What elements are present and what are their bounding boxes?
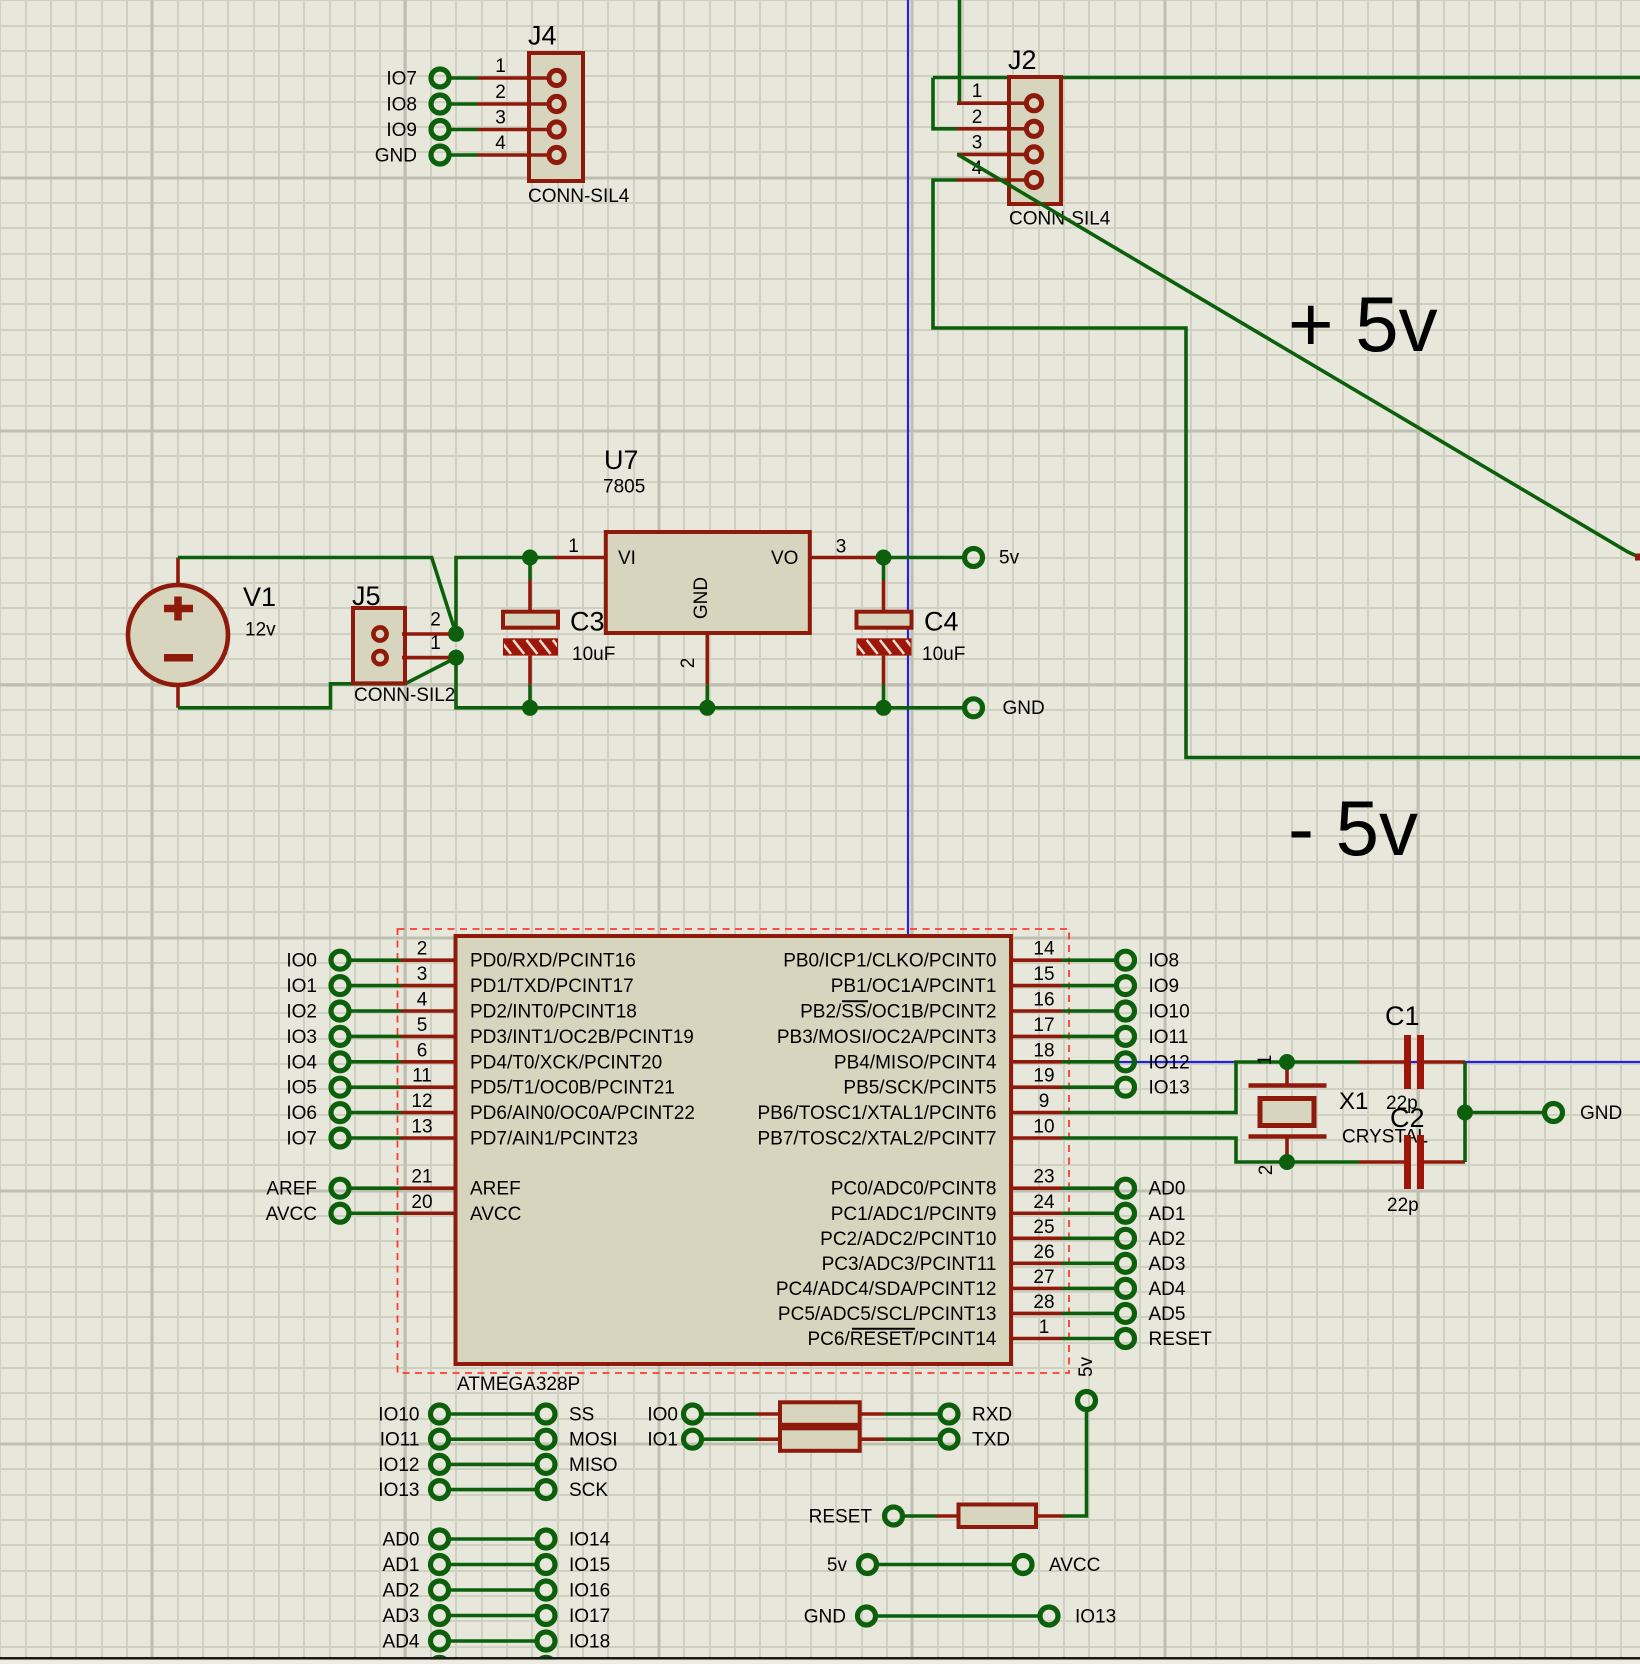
svg-text:C4: C4 (924, 607, 959, 637)
sheet border blue horizontal (908, 1061, 1640, 1063)
wire IO4 (350, 1060, 401, 1064)
svg-text:AD5: AD5 (1149, 1304, 1186, 1325)
C1 plates (1404, 1035, 1411, 1089)
junction GND pin2 (699, 700, 715, 716)
terminal IO3 (331, 1027, 349, 1045)
terminal AD1 (1117, 1204, 1135, 1222)
svg-text:24: 24 (1033, 1192, 1055, 1213)
wire C3 bottom (528, 685, 532, 708)
svg-text:IO11: IO11 (1149, 1027, 1189, 1048)
svg-text:IO13: IO13 (1075, 1607, 1116, 1628)
C2 plates (1404, 1135, 1411, 1189)
svg-text:22p: 22p (1387, 1195, 1419, 1216)
wire node to U7 VI (456, 558, 554, 634)
svg-text:- 5v: - 5v (1288, 784, 1418, 872)
svg-text:3: 3 (417, 964, 428, 985)
wire C4 top (882, 558, 886, 581)
wire RESET (903, 1514, 936, 1518)
svg-text:IO16: IO16 (569, 1581, 610, 1602)
J2 pin3 ring (1026, 147, 1041, 162)
pair AD2-IO16 (383, 1581, 611, 1602)
MCU U? ATMEGA328P (266, 929, 1213, 1395)
wire C4 bottom (882, 685, 886, 708)
junction GND node (1457, 1105, 1473, 1121)
svg-text:PD1/TXD/PCINT17: PD1/TXD/PCINT17 (470, 976, 634, 997)
svg-text:AD3: AD3 (383, 1606, 420, 1627)
terminal IO8 (1117, 951, 1135, 969)
pin stub J4 pin2 (478, 102, 553, 106)
svg-text:4: 4 (495, 133, 506, 154)
terminal RESET (1117, 1330, 1135, 1348)
C1 left lead (1359, 1060, 1405, 1064)
resistor RESET pullup (809, 1356, 1097, 1527)
pin stub J5 pin2 (402, 632, 449, 636)
pair AD0-IO14 (383, 1530, 611, 1551)
pin stub 2 (401, 958, 456, 962)
svg-text:SCK: SCK (569, 1480, 608, 1501)
X1 body (1260, 1099, 1314, 1126)
terminal IO6 (331, 1104, 349, 1122)
C1 right lead (1424, 1060, 1465, 1064)
svg-text:PB2/SS/OC1B/PCINT2: PB2/SS/OC1B/PCINT2 (800, 1002, 996, 1023)
svg-text:2: 2 (417, 939, 428, 960)
svg-text:AD2: AD2 (1149, 1229, 1186, 1250)
V1 plus sign (164, 605, 193, 613)
svg-text:PB0/ICP1/CLKO/PCINT0: PB0/ICP1/CLKO/PCINT0 (783, 951, 996, 972)
svg-text:PB7/TOSC2/XTAL2/PCINT7: PB7/TOSC2/XTAL2/PCINT7 (758, 1129, 997, 1150)
junction VO/C4 (876, 550, 892, 566)
J4 pin2 ring (549, 96, 564, 111)
svg-text:1: 1 (972, 81, 983, 102)
junction J5 pin1 (448, 650, 464, 666)
X1 top electrode bar (1249, 1083, 1327, 1088)
terminal IO7 (331, 1129, 349, 1147)
svg-text:IO3: IO3 (286, 1027, 317, 1048)
pair IO10-SS (378, 1405, 594, 1426)
J5 pin1 ring (373, 651, 386, 664)
capacitor C3 10uF (500, 558, 615, 708)
svg-text:MOSI: MOSI (569, 1430, 618, 1451)
svg-text:IO13: IO13 (378, 1480, 419, 1501)
C3 top plate (503, 612, 558, 628)
pair IO13-SCK (378, 1480, 608, 1501)
pin stub J4 pin3 (478, 128, 553, 132)
svg-text:RESET: RESET (1149, 1329, 1213, 1350)
pin stub 4 (401, 1009, 456, 1013)
pin stub 25 (1011, 1237, 1062, 1241)
junction XTAL1/C1 (1279, 1054, 1295, 1070)
pin stub 13 (401, 1136, 456, 1140)
svg-text:J5: J5 (352, 581, 381, 611)
wire IO3 (350, 1035, 401, 1039)
svg-text:C2: C2 (1390, 1103, 1425, 1133)
terminal IO1 (331, 977, 349, 995)
svg-text:IO9: IO9 (1149, 976, 1180, 997)
pin stub 26 (1011, 1262, 1062, 1266)
pin stub 6 (401, 1060, 456, 1064)
crystal circuit (1062, 1001, 1622, 1216)
pin stub 11 (401, 1085, 456, 1089)
terminal IO11 (1117, 1027, 1135, 1045)
capacitor C4 10uF (854, 558, 966, 708)
svg-text:5v: 5v (827, 1555, 848, 1576)
svg-text:PB5/SCK/PCINT5: PB5/SCK/PCINT5 (843, 1078, 996, 1099)
wire J4 pin4 (450, 153, 478, 157)
J4 body CONN-SIL4 (529, 53, 583, 181)
svg-text:PC6/RESET/PCINT14: PC6/RESET/PCINT14 (808, 1329, 997, 1350)
svg-text:25: 25 (1033, 1217, 1054, 1238)
resistor lead (936, 1514, 959, 1518)
svg-text:CONN-SIL4: CONN-SIL4 (528, 186, 630, 207)
terminal IO9 (431, 121, 449, 139)
connector J4 (375, 21, 630, 208)
svg-text:PC2/ADC2/PCINT10: PC2/ADC2/PCINT10 (820, 1229, 996, 1250)
wire IO7 (350, 1136, 401, 1140)
svg-text:IO14: IO14 (569, 1530, 611, 1551)
pin stub 14 (1011, 958, 1062, 962)
svg-text:GND: GND (691, 577, 712, 619)
pin stub 9 (1011, 1111, 1062, 1115)
wire RESET (1062, 1337, 1116, 1341)
wire J2 pin1 from top (958, 0, 962, 103)
svg-text:19: 19 (1033, 1066, 1054, 1087)
wire XTAL2 (1062, 1138, 1359, 1162)
J2 pin2 ring (1026, 121, 1041, 136)
svg-text:IO6: IO6 (286, 1103, 317, 1124)
terminal GND (965, 699, 983, 717)
junction C4/GND (876, 700, 892, 716)
svg-text:PD0/RXD/PCINT16: PD0/RXD/PCINT16 (470, 951, 636, 972)
svg-text:TXD: TXD (972, 1430, 1010, 1451)
svg-text:AD3: AD3 (1149, 1254, 1186, 1275)
pin stub J4 pin4 (478, 153, 553, 157)
terminal RESET (885, 1507, 903, 1525)
pair AD4-IO18 (383, 1632, 611, 1653)
svg-text:AD0: AD0 (1149, 1179, 1186, 1200)
svg-text:U7: U7 (604, 445, 639, 475)
svg-text:AD2: AD2 (383, 1581, 420, 1602)
C4 top plate (857, 612, 912, 628)
svg-text:GND: GND (1003, 698, 1045, 719)
wire diagonal +5v (958, 154, 1640, 557)
svg-text:12v: 12v (245, 620, 276, 641)
regulator U7 7805 (554, 445, 876, 708)
wire GND rail (456, 658, 964, 708)
pair AD3-IO17 (383, 1606, 611, 1627)
U7 body (606, 532, 810, 633)
C4 bottom lead (882, 656, 886, 685)
svg-text:2: 2 (1256, 1165, 1277, 1176)
terminal 5v (965, 549, 983, 567)
wire AD1 (1062, 1211, 1116, 1215)
connector J2 (933, 0, 1640, 758)
svg-text:PD3/INT1/OC2B/PCINT19: PD3/INT1/OC2B/PCINT19 (470, 1027, 694, 1048)
terminal AD3 (1117, 1254, 1135, 1272)
J5 pin2 ring (373, 627, 386, 640)
svg-text:AD1: AD1 (383, 1555, 420, 1576)
svg-text:IO8: IO8 (386, 95, 417, 116)
wire U7 GND (705, 685, 709, 708)
svg-text:IO0: IO0 (286, 951, 317, 972)
terminal GND (431, 146, 449, 164)
svg-text:GND: GND (1580, 1103, 1622, 1124)
svg-text:IO17: IO17 (569, 1606, 610, 1627)
wire J2 pin2 (933, 78, 957, 129)
pin stub U7 GND pin2 (705, 633, 709, 685)
svg-text:C3: C3 (570, 607, 605, 637)
C2 left lead (1359, 1160, 1405, 1164)
svg-text:IO18: IO18 (569, 1632, 610, 1653)
X1 bottom electrode bar (1249, 1134, 1327, 1139)
pin stub 20 (401, 1211, 456, 1215)
svg-text:AD1: AD1 (1149, 1204, 1186, 1225)
pin stub 18 (1011, 1060, 1062, 1064)
svg-text:28: 28 (1033, 1292, 1054, 1313)
C4 top lead (882, 580, 886, 612)
svg-text:6: 6 (417, 1040, 428, 1061)
svg-text:RESET: RESET (809, 1507, 873, 1528)
svg-text:J2: J2 (1008, 45, 1037, 75)
svg-text:AVCC: AVCC (266, 1204, 317, 1225)
pin stub U7 VI pin1 (554, 556, 606, 560)
svg-text:7805: 7805 (603, 477, 645, 498)
terminal IO12 (1117, 1053, 1135, 1071)
wire V1- bottom (178, 658, 456, 708)
svg-text:J4: J4 (528, 21, 557, 51)
svg-text:5v: 5v (1076, 1356, 1097, 1377)
wire AD2 (1062, 1237, 1116, 1241)
pin stub 23 (1011, 1186, 1062, 1190)
pin stub J2 pin4 (957, 178, 1029, 182)
wire AVCC (350, 1211, 401, 1215)
terminal AD4 (1117, 1279, 1135, 1297)
svg-text:X1: X1 (1339, 1088, 1368, 1115)
svg-text:1: 1 (495, 56, 506, 77)
svg-text:IO10: IO10 (378, 1405, 419, 1426)
svg-text:IO9: IO9 (386, 120, 417, 141)
terminal IO0 (331, 951, 349, 969)
svg-text:PD6/AIN0/OC0A/PCINT22: PD6/AIN0/OC0A/PCINT22 (470, 1103, 695, 1124)
svg-text:PB6/TOSC1/XTAL1/PCINT6: PB6/TOSC1/XTAL1/PCINT6 (758, 1103, 997, 1124)
svg-text:PC5/ADC5/SCL/PCINT13: PC5/ADC5/SCL/PCINT13 (778, 1304, 997, 1325)
svg-text:PD2/INT0/PCINT18: PD2/INT0/PCINT18 (470, 1002, 637, 1023)
svg-text:V1: V1 (243, 582, 276, 612)
svg-text:AD4: AD4 (383, 1632, 420, 1653)
wire IO10 (1062, 1009, 1116, 1013)
terminal IO10 (1117, 1002, 1135, 1020)
svg-text:IO5: IO5 (286, 1078, 317, 1099)
svg-text:VI: VI (618, 548, 636, 569)
wire V1+ to J5 pin2 node (178, 558, 456, 634)
svg-text:IO12: IO12 (378, 1455, 419, 1476)
svg-text:PB3/MOSI/OC2A/PCINT3: PB3/MOSI/OC2A/PCINT3 (777, 1027, 997, 1048)
terminal AVCC (331, 1204, 349, 1222)
svg-text:C1: C1 (1385, 1001, 1420, 1031)
svg-text:IO4: IO4 (286, 1052, 317, 1073)
terminal AD2 (1117, 1229, 1135, 1247)
J4 pin3 ring (549, 122, 564, 137)
V1 top stub (176, 558, 180, 587)
terminal GND (1545, 1104, 1563, 1122)
wire IO0 (350, 958, 401, 962)
C3 bottom lead (528, 656, 532, 685)
junction C3/VI (522, 550, 538, 566)
wire IO1 (350, 984, 401, 988)
svg-text:PC1/ADC1/PCINT9: PC1/ADC1/PCINT9 (831, 1204, 997, 1225)
svg-text:2: 2 (972, 107, 983, 128)
svg-text:VO: VO (771, 548, 798, 569)
pin stub 27 (1011, 1287, 1062, 1291)
sheet border blue vertical (907, 0, 909, 1062)
C3 top lead (528, 580, 532, 612)
wire AD3 (1062, 1262, 1116, 1266)
wire C3 top (528, 558, 532, 581)
svg-text:IO8: IO8 (1149, 951, 1180, 972)
wire +5v rail (933, 76, 1640, 80)
terminal IO8 (431, 95, 449, 113)
svg-text:4: 4 (417, 990, 428, 1011)
svg-text:IO1: IO1 (647, 1430, 678, 1451)
wire IO13 (1062, 1085, 1116, 1089)
pin stub 1 (1011, 1337, 1062, 1341)
pair 5v-AVCC (827, 1555, 1100, 1576)
svg-text:IO7: IO7 (386, 69, 417, 90)
svg-text:21: 21 (411, 1167, 432, 1188)
svg-text:23: 23 (1033, 1167, 1054, 1188)
terminal IO2 (331, 1002, 349, 1020)
svg-text:PC3/ADC3/PCINT11: PC3/ADC3/PCINT11 (822, 1254, 997, 1275)
svg-text:5: 5 (417, 1015, 428, 1036)
wire J4 pin3 (450, 128, 478, 132)
svg-text:9: 9 (1039, 1091, 1050, 1112)
terminal IO5 (331, 1078, 349, 1096)
J2 pin1 ring (1026, 96, 1041, 111)
junction J5 pin2 (448, 626, 464, 642)
svg-text:AD0: AD0 (383, 1530, 420, 1551)
J5 body CONN-SIL2 (353, 608, 405, 683)
wire IO11 (1062, 1035, 1116, 1039)
wire IO9 (1062, 984, 1116, 988)
pair IO11-MOSI (380, 1430, 618, 1451)
terminal AREF (331, 1179, 349, 1197)
wire AREF (350, 1186, 401, 1190)
pin stub 15 (1011, 984, 1062, 988)
V1 minus sign (164, 654, 193, 662)
pin stub J2 pin3 (957, 153, 1029, 157)
svg-text:PC0/ADC0/PCINT8: PC0/ADC0/PCINT8 (831, 1179, 997, 1200)
svg-text:1: 1 (1255, 1055, 1276, 1066)
V1 body circle (128, 585, 228, 685)
resistor lead (1036, 1514, 1063, 1518)
svg-text:17: 17 (1033, 1015, 1054, 1036)
svg-text:3: 3 (972, 132, 983, 153)
C2 right lead (1424, 1160, 1465, 1164)
svg-text:15: 15 (1033, 964, 1054, 985)
wire IO12 (1062, 1060, 1116, 1064)
svg-text:ATMEGA328P: ATMEGA328P (457, 1374, 580, 1395)
svg-text:1: 1 (568, 536, 579, 557)
wire to GND terminal (1465, 1111, 1544, 1115)
svg-text:PD7/AIN1/PCINT23: PD7/AIN1/PCINT23 (470, 1129, 638, 1150)
svg-text:10: 10 (1033, 1117, 1054, 1138)
wire AD5 (1062, 1312, 1116, 1316)
wire IO8 (1062, 958, 1116, 962)
svg-text:10uF: 10uF (922, 644, 965, 665)
svg-text:SS: SS (569, 1405, 594, 1426)
svg-text:1: 1 (430, 633, 441, 654)
svg-text:3: 3 (495, 108, 506, 129)
svg-text:PC4/ADC4/SDA/PCINT12: PC4/ADC4/SDA/PCINT12 (776, 1279, 997, 1300)
pair IO12-MISO (378, 1455, 617, 1476)
wire AD4 (1062, 1287, 1116, 1291)
svg-text:PB4/MISO/PCINT4: PB4/MISO/PCINT4 (834, 1052, 997, 1073)
svg-text:CONN-SIL4: CONN-SIL4 (1009, 209, 1111, 230)
pin stub 3 (401, 984, 456, 988)
svg-text:IO1: IO1 (286, 976, 317, 997)
svg-text:+ 5v: + 5v (1288, 280, 1438, 368)
svg-text:MISO: MISO (569, 1455, 618, 1476)
pin stub 5 (401, 1035, 456, 1039)
resistor IO0-RXD (647, 1402, 1012, 1425)
pin stub J4 pin1 (478, 76, 553, 80)
wire J4 pin2 (450, 102, 478, 106)
wire IO6 (350, 1111, 401, 1115)
pin stub 21 (401, 1186, 456, 1190)
wire to 5v (1063, 1412, 1087, 1517)
svg-text:13: 13 (411, 1117, 432, 1138)
svg-text:CONN-SIL2: CONN-SIL2 (354, 685, 455, 706)
pair GND-IO13 (804, 1607, 1116, 1628)
svg-text:10uF: 10uF (572, 644, 615, 665)
svg-text:IO11: IO11 (380, 1430, 420, 1451)
svg-text:IO7: IO7 (286, 1129, 317, 1150)
battery V1 (128, 558, 276, 708)
terminal IO9 (1117, 977, 1135, 995)
svg-text:IO13: IO13 (1149, 1078, 1190, 1099)
terminal AD5 (1117, 1304, 1135, 1322)
X1 bottom lead (1285, 1139, 1289, 1163)
window edge bottom (0, 1657, 1640, 1660)
wire J2 pin4 (933, 180, 1640, 758)
svg-text:IO15: IO15 (569, 1555, 610, 1576)
svg-text:20: 20 (411, 1192, 432, 1213)
svg-text:18: 18 (1033, 1040, 1054, 1061)
wire C1/C2 to GND (1463, 1062, 1467, 1162)
pin stub J2 pin1 (957, 101, 1029, 105)
svg-text:PD4/T0/XCK/PCINT20: PD4/T0/XCK/PCINT20 (470, 1052, 662, 1073)
svg-text:2: 2 (678, 658, 699, 669)
svg-text:IO12: IO12 (1149, 1052, 1190, 1073)
pin stub 16 (1011, 1009, 1062, 1013)
wire VO to 5v (876, 556, 964, 560)
svg-text:GND: GND (375, 146, 417, 167)
wire IO2 (350, 1009, 401, 1013)
pin stub 12 (401, 1111, 456, 1115)
svg-text:5v: 5v (999, 548, 1020, 569)
resistor IO1-TXD (647, 1428, 1010, 1451)
svg-text:IO0: IO0 (647, 1405, 678, 1426)
terminal IO7 (431, 69, 449, 87)
connector J5 (352, 581, 455, 706)
svg-text:27: 27 (1033, 1267, 1054, 1288)
pin stub 19 (1011, 1085, 1062, 1089)
J2 pin4 ring (1026, 172, 1041, 187)
svg-text:AVCC: AVCC (1049, 1555, 1100, 1576)
svg-text:IO10: IO10 (1149, 1002, 1190, 1023)
svg-text:2: 2 (430, 610, 441, 631)
svg-text:AREF: AREF (470, 1179, 521, 1200)
wire J4 pin1 (450, 76, 478, 80)
